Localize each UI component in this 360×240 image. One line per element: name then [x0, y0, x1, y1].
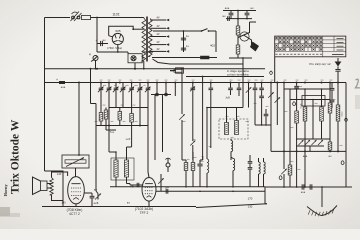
coil L15	[259, 158, 261, 187]
IF2 coil L4	[225, 123, 229, 135]
wire speaker bottom	[52, 195, 64, 201]
label tube V3 line1	[135, 207, 153, 211]
wire x265 riser	[265, 187, 267, 204]
label 110V	[112, 12, 119, 16]
dial lamp box	[128, 54, 142, 63]
wire x248 segment	[248, 96, 250, 108]
wire x243 vertical	[242, 57, 244, 64]
connector arrow blob	[250, 42, 259, 52]
bus wire y82.5 long	[45, 82, 347, 84]
label 140b	[61, 201, 66, 205]
resistor R9	[184, 160, 188, 187]
inductor loop symbol e	[293, 102, 296, 106]
wire y152 link	[109, 151, 116, 153]
electrolytic C1 on x97	[96, 39, 108, 46]
wire mains top horizontal	[45, 17, 71, 19]
transformer T1 secondary winding	[148, 19, 152, 57]
wire mains left vertical	[44, 18, 46, 172]
wire x79 vertical	[78, 83, 80, 156]
terminal box	[176, 68, 184, 73]
wire HT drop x216	[215, 31, 217, 52]
wire x190 long	[190, 83, 195, 161]
wire rectifier bottom pin	[117, 45, 119, 52]
label 4V d	[156, 41, 159, 44]
wire rectifier box left link	[109, 36, 113, 37]
potentiometer P1 element	[65, 158, 86, 167]
wire x148 lower	[147, 126, 149, 173]
IF2 coil L5	[235, 121, 239, 135]
wire link y94.5 with plugs	[151, 83, 171, 96]
terminal plug left mid	[170, 70, 176, 72]
bandswitch frame	[302, 96, 325, 107]
wire y183.5 seg	[127, 184, 135, 186]
capacitor C2 C3 smoothing	[181, 30, 189, 52]
coil L8	[295, 92, 299, 151]
wire x271 vertical	[268, 83, 274, 152]
inductor loop symbol a	[270, 71, 273, 75]
IF coil L1	[114, 160, 118, 177]
coil L7	[233, 159, 235, 187]
label tube V3 line2	[140, 211, 149, 215]
coil L16	[264, 158, 266, 187]
potentiometer P1 box	[62, 155, 89, 168]
fuse F1	[82, 15, 91, 19]
wire x175 stub	[174, 83, 176, 97]
wires tuning drops	[101, 96, 148, 126]
wire x131 lower	[127, 126, 132, 148]
transformer tap wire 2	[150, 27, 169, 30]
resistor R3 osc	[236, 40, 240, 54]
bus wire y68.7	[45, 68, 266, 70]
wire y125 link	[255, 124, 271, 126]
dial lamp LP	[131, 56, 136, 61]
wire tube V3 top	[148, 172, 149, 178]
resistor R4 on bus	[170, 69, 182, 72]
scan smudge right edge	[355, 79, 360, 109]
wire right y99.5	[290, 99, 330, 101]
coil L12	[328, 139, 332, 151]
wire bottom diagonal	[196, 204, 267, 208]
wire lamp box top	[127, 52, 129, 54]
coil L11	[328, 83, 332, 140]
bus right y151.4	[271, 150, 346, 152]
wire top drop x97	[96, 18, 98, 53]
bus junction dots y68.7	[96, 68, 183, 70]
junction dot y52	[117, 51, 119, 53]
note text line 1	[227, 69, 249, 73]
labels y151 region	[303, 156, 332, 158]
phono plug symbol	[89, 52, 98, 70]
resistor R7	[130, 114, 134, 126]
junction x79	[78, 154, 80, 156]
tube V2 output	[68, 177, 85, 204]
capacitor C6	[222, 15, 229, 21]
transformer T1 primary winding	[142, 18, 146, 70]
capacitor C17	[294, 83, 302, 93]
capacitor C5	[245, 7, 254, 19]
wire top right horizontal	[223, 10, 256, 12]
wire y52 left	[97, 51, 128, 53]
wire x290 vertical	[289, 89, 291, 151]
resistor R1 dark	[201, 56, 210, 59]
label 402	[210, 44, 215, 48]
wire coils join	[231, 157, 233, 159]
labels mid cluster	[110, 132, 131, 141]
wire y186.8 mid	[110, 186, 265, 188]
trimmer arrow cathode	[94, 194, 101, 205]
inductor loop symbol c	[279, 176, 282, 180]
wire tube V3 bottom	[148, 201, 150, 206]
wire x296 lower	[296, 151, 298, 187]
wire y191.3 mid	[156, 191, 265, 193]
wire x155 vertical	[154, 95, 156, 160]
wire x284 lower	[281, 151, 287, 187]
wire speaker top	[52, 172, 68, 178]
label 170	[248, 197, 253, 201]
title text Trix Oktode W	[10, 119, 22, 194]
inductor loop symbol b	[345, 118, 348, 122]
scan smudge bottom-left corner	[0, 207, 20, 217]
wire x277 vertical	[275, 82, 281, 126]
coil L6	[231, 139, 233, 160]
capacitor C22	[330, 83, 335, 109]
resistor R6	[118, 112, 122, 126]
wire y57.5 end	[209, 57, 217, 59]
bus bottom left y206.5	[42, 206, 196, 208]
wire trimmer row top	[296, 138, 330, 140]
label tube V2 line1	[67, 208, 83, 212]
wire HT to switch	[153, 30, 201, 32]
triode U detail	[238, 28, 252, 45]
transformer tap wire 5	[150, 50, 169, 53]
pickup jack symbol	[165, 158, 170, 172]
bus y82 dots	[78, 82, 339, 84]
capacitor C12	[237, 83, 242, 97]
wire x109 lower	[108, 126, 110, 153]
wire x96 vertical	[96, 104, 98, 194]
resistor R5	[99, 113, 103, 122]
capacitor C15 double	[259, 83, 264, 126]
wire IF2 top2	[236, 108, 238, 121]
wire x207 upper	[206, 107, 208, 150]
wire x313 vertical	[312, 100, 314, 140]
wire segment y107.5	[109, 107, 148, 109]
wire IF bottom2	[126, 177, 128, 184]
wire y52 right segment	[142, 50, 153, 53]
wire rectifier box top	[109, 26, 134, 35]
bus bottom y187	[265, 186, 352, 188]
component value labels scatter	[95, 80, 343, 172]
wire rectifier box right	[132, 28, 144, 30]
resistor R8	[104, 108, 116, 131]
wire x182 long	[179, 69, 186, 160]
wire left step to bottom bus	[45, 171, 64, 207]
label 4V a	[156, 17, 159, 20]
capacitor C8 cathode	[84, 193, 94, 207]
capacitor C21 pair	[248, 155, 253, 187]
note underline wire y76.5	[186, 76, 264, 78]
ground symbol	[307, 206, 337, 217]
wire x210 long	[209, 83, 214, 149]
transformer tap wire 4	[150, 43, 169, 46]
coil L10	[320, 89, 324, 139]
wire IF2 top1	[226, 108, 228, 123]
junction dot x97 top	[96, 17, 98, 19]
wire top right row2	[226, 18, 252, 20]
tuning trimmer capacitors group	[98, 83, 151, 97]
resistor R10	[191, 152, 195, 187]
coil L3	[207, 150, 209, 187]
IF coil L2	[124, 160, 128, 177]
tube V3 mixer	[142, 178, 156, 202]
label (7D3 VBa)	[107, 46, 122, 50]
capacitor C14	[253, 83, 258, 101]
capacitor C19	[310, 184, 312, 189]
label AB3	[130, 186, 134, 189]
output transformer Tr2	[50, 178, 54, 196]
note text line 2	[227, 72, 249, 76]
wire x274 table drop	[274, 57, 276, 83]
coil L13	[288, 151, 292, 187]
wire osc bottom	[229, 54, 252, 58]
label 4V c	[156, 33, 159, 36]
trimmer near V3	[158, 174, 164, 191]
wire x162 vertical	[162, 95, 164, 152]
wire x243 down2	[242, 64, 244, 108]
transformer tap wire 1	[150, 19, 169, 22]
wire x346 vertical	[345, 83, 347, 188]
coil L9	[301, 89, 307, 151]
switch S2 HT	[201, 29, 216, 32]
table voltage chart	[275, 36, 346, 57]
coil L14 drop	[304, 151, 306, 187]
wire trimmer row bottom	[296, 146, 324, 151]
wire x90 vertical	[90, 68, 96, 104]
trimmer C13	[246, 83, 252, 97]
wire osc right branch	[250, 22, 257, 28]
resistor R2 osc	[236, 26, 240, 35]
wire R5 down	[100, 121, 102, 126]
label 443	[94, 189, 97, 192]
resistor R11 6000	[336, 83, 343, 152]
capacitor C16	[264, 109, 269, 125]
wire lamp box to bus	[134, 63, 136, 70]
wire right bus y89	[284, 88, 330, 90]
wire lamp box right	[142, 57, 144, 59]
label 6000a	[203, 155, 205, 160]
IF transformer 2 dashed box	[219, 119, 248, 139]
wire x284 vertical	[283, 83, 285, 152]
trimmer row right	[299, 140, 324, 145]
speaker LS	[33, 177, 52, 195]
wire x202 long	[200, 76, 204, 160]
wire link y125.5	[96, 125, 148, 127]
wire IF top1	[115, 151, 117, 160]
inductor loop symbol d	[341, 161, 344, 165]
title brand text Horny	[3, 183, 8, 196]
capacitor C18	[301, 184, 306, 194]
wire IF top2	[126, 147, 128, 160]
junction dots osc	[237, 10, 248, 20]
wire y57.5	[152, 57, 201, 59]
label 4V b	[156, 25, 159, 28]
label 443b	[127, 202, 130, 205]
wire IF bottom1	[115, 177, 117, 187]
antenna symbol	[335, 58, 342, 83]
wire ground drop	[321, 187, 323, 207]
capacitor C9 grid	[134, 183, 143, 187]
label Pro note	[309, 62, 331, 66]
wire y107.5 segment2	[207, 107, 243, 109]
transformer T1 core	[146, 17, 147, 62]
wire switch to transformer	[91, 17, 144, 19]
capacitor C4	[225, 7, 234, 19]
capacitor C10	[197, 160, 202, 187]
wire pot to tube grid	[75, 168, 77, 177]
wire osc vertical top	[237, 11, 239, 27]
small labels tuning	[103, 85, 146, 87]
switch S1 mains	[71, 12, 82, 22]
IF transformer box	[111, 158, 134, 180]
electrolytic C7 main	[56, 78, 66, 89]
wire tube V2 bottom pin	[75, 204, 77, 207]
label tube V2 line2	[69, 212, 80, 216]
transformer tap wire 3	[150, 35, 169, 38]
capacitor C11	[225, 83, 233, 100]
rectifier tube V1	[112, 33, 123, 44]
wire x63 bottom join	[62, 201, 64, 207]
capacitor C20 jpf	[165, 186, 170, 193]
wire x255 segment	[254, 100, 256, 125]
label 140	[57, 172, 62, 176]
wire y64 transformer out	[153, 59, 244, 64]
label 4V e	[156, 48, 159, 51]
label 605	[115, 29, 120, 33]
label 130	[248, 205, 253, 209]
